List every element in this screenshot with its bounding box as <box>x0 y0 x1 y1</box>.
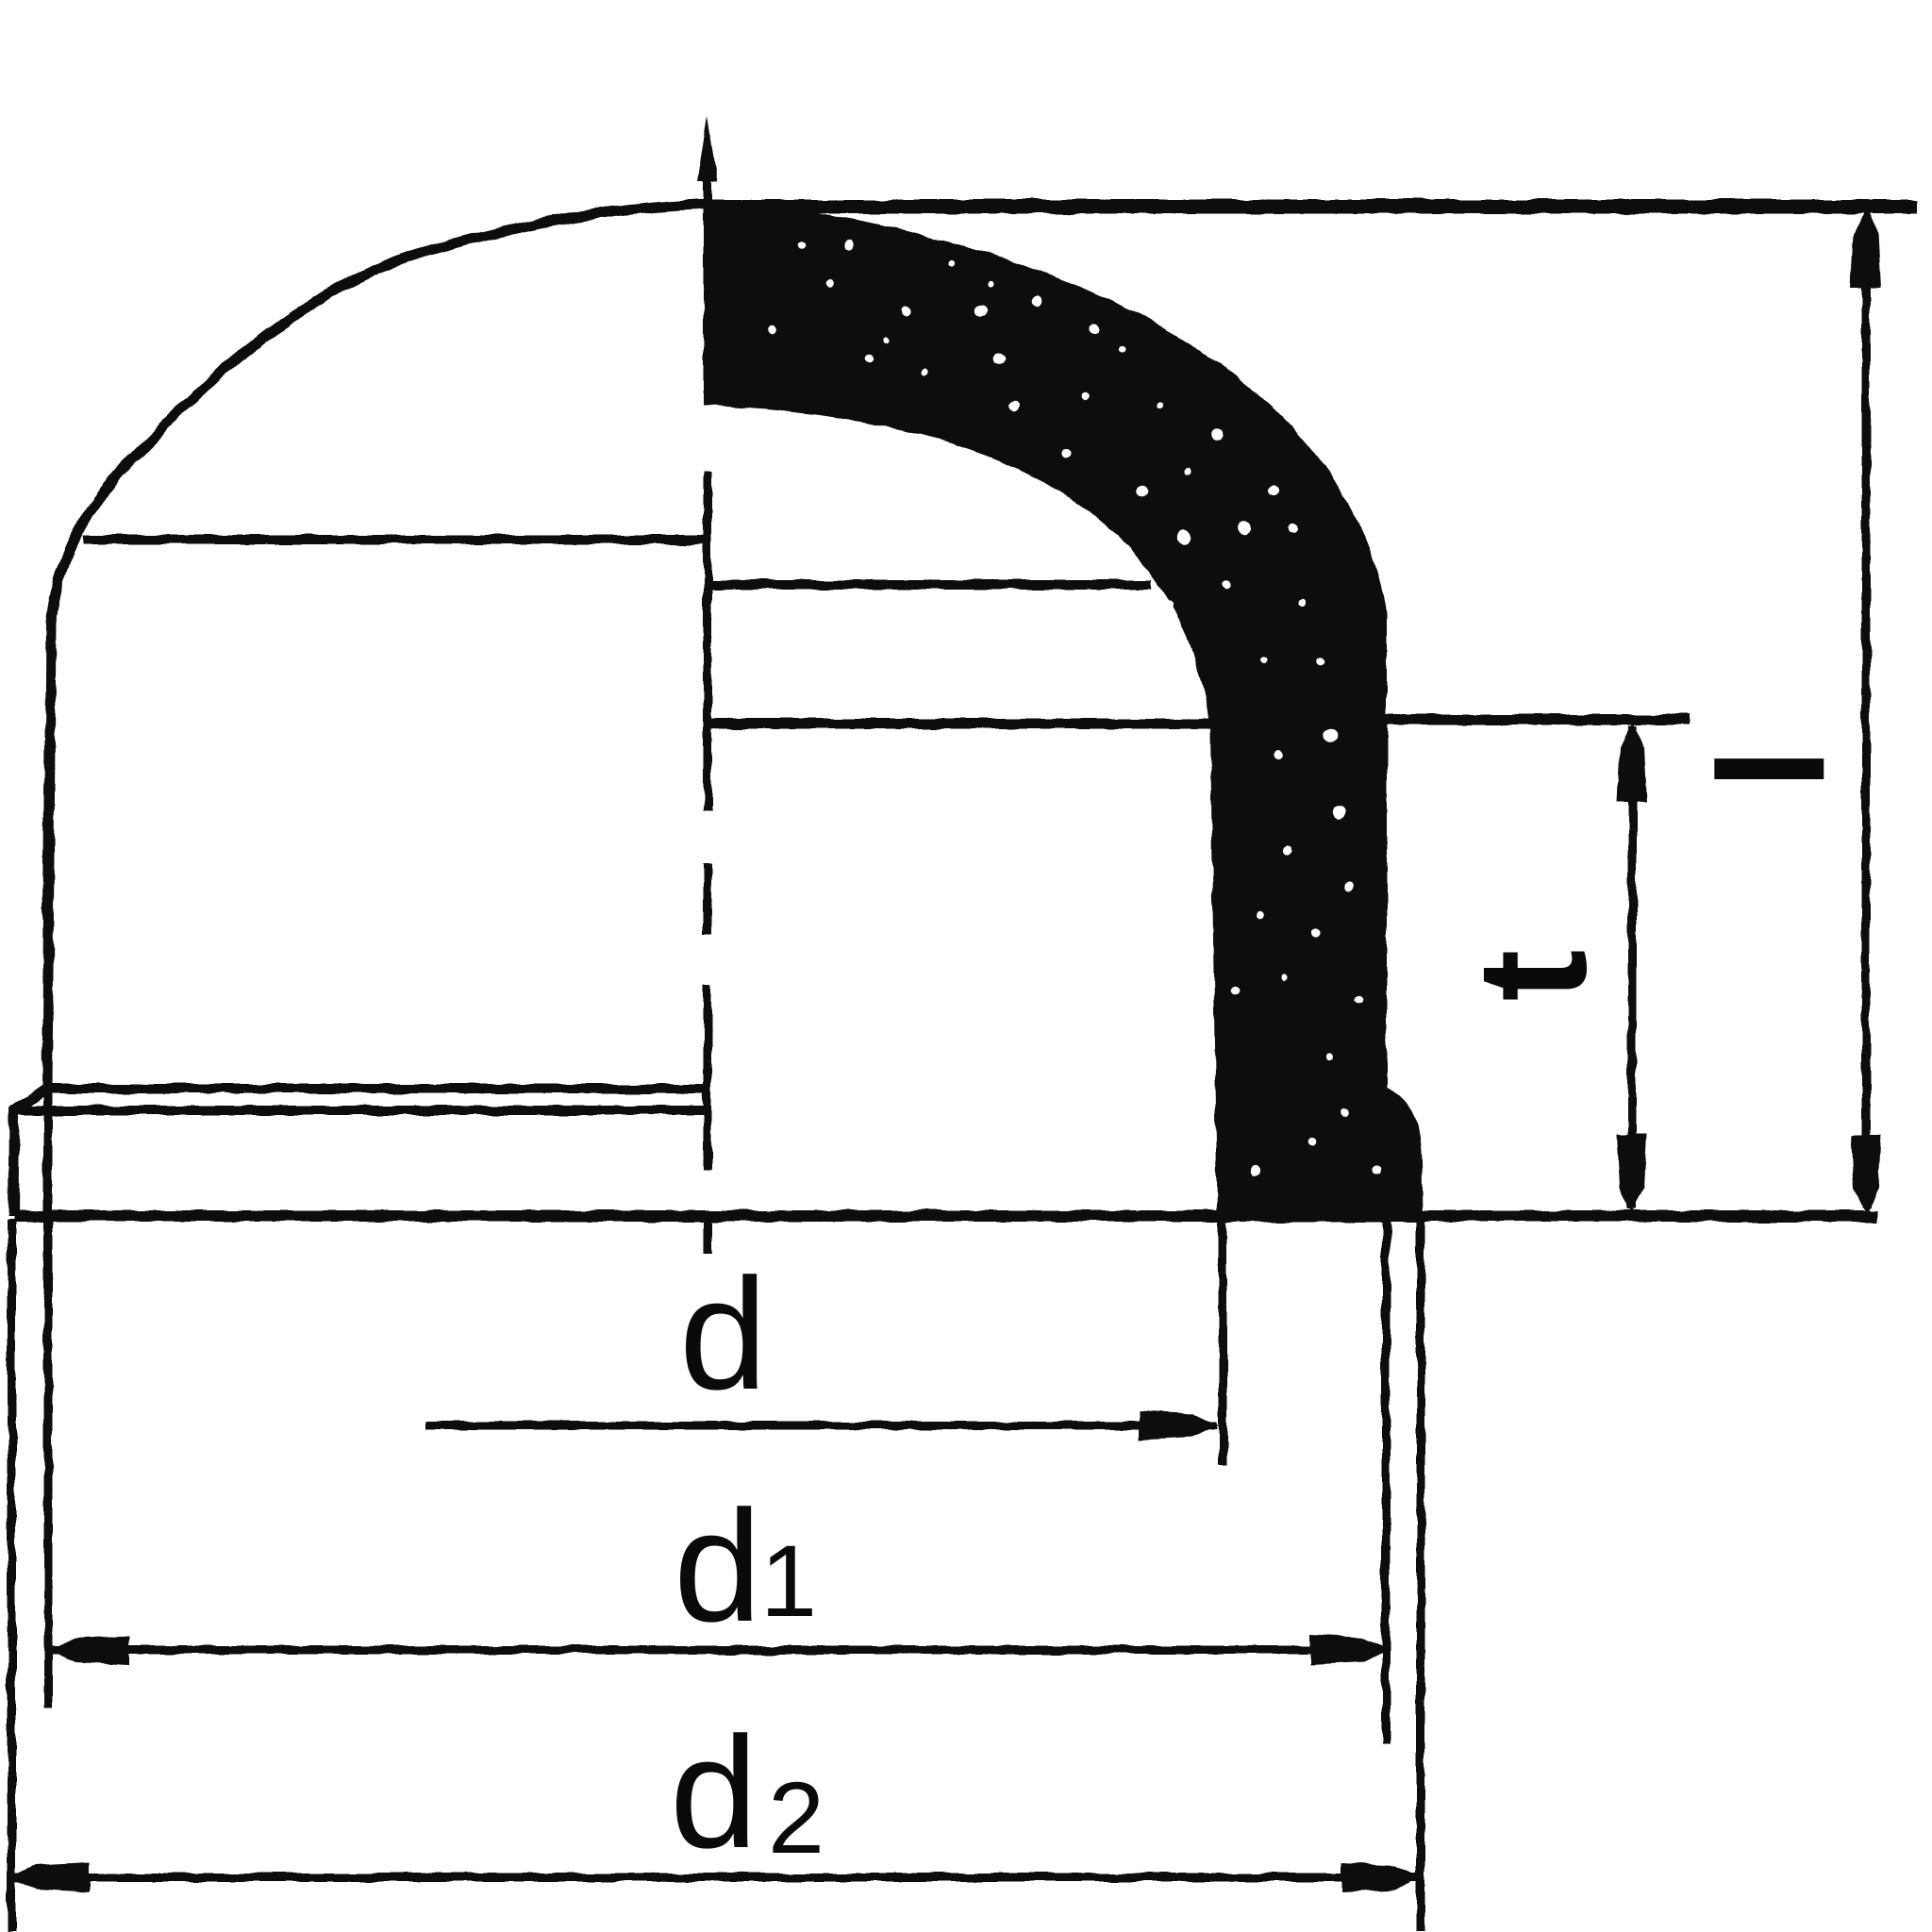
svg-text:1: 1 <box>760 1524 817 1638</box>
svg-text:d: d <box>670 1704 758 1881</box>
svg-text:d: d <box>679 1245 767 1423</box>
svg-text:t: t <box>1445 950 1619 1002</box>
svg-text:l: l <box>1687 748 1856 790</box>
svg-text:2: 2 <box>768 1760 824 1874</box>
svg-text:d: d <box>674 1477 761 1655</box>
